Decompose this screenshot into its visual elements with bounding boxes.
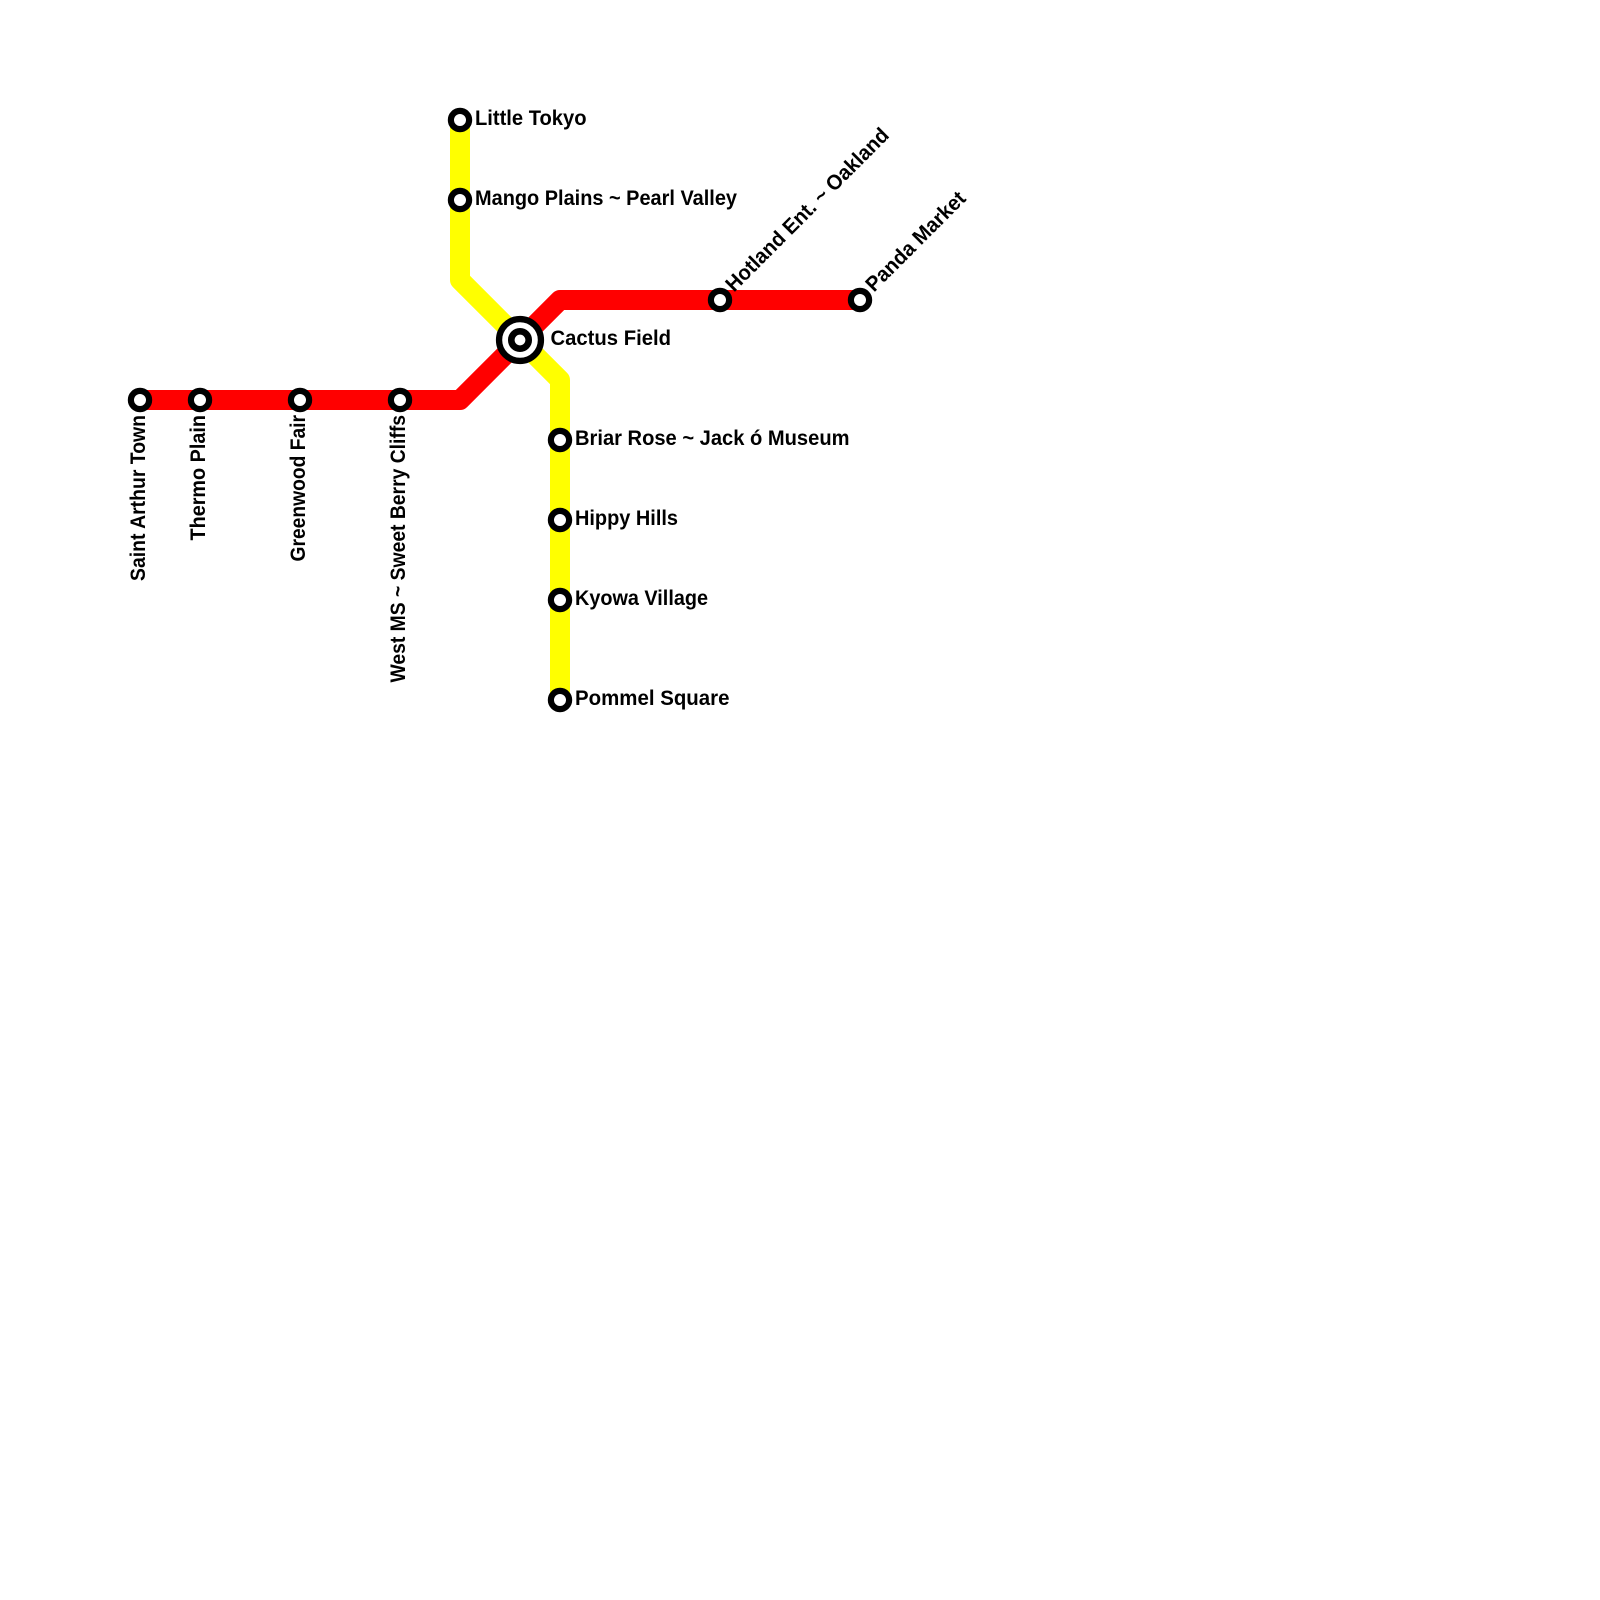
station Kyowa Village: [551, 591, 569, 609]
station Greenwood Fair: [291, 391, 309, 409]
station Panda Market: [851, 291, 869, 309]
svg-text:Kyowa Village: Kyowa Village: [575, 587, 708, 610]
station Briar Rose ~ Jack ó Museum: [551, 431, 569, 449]
station Pommel Square: [551, 691, 569, 709]
svg-text:West MS ~ Sweet Berry Cliffs: West MS ~ Sweet Berry Cliffs: [387, 415, 410, 683]
svg-text:Mango Plains ~ Pearl Valley: Mango Plains ~ Pearl Valley: [475, 187, 737, 210]
station Mango Plains ~ Pearl Valley: [451, 191, 469, 209]
svg-text:Thermo Plain: Thermo Plain: [187, 415, 210, 541]
station Thermo Plain: [191, 391, 209, 409]
svg-text:Little Tokyo: Little Tokyo: [475, 107, 587, 130]
yellow line: [460, 120, 560, 700]
svg-text:Cactus Field: Cactus Field: [551, 327, 672, 350]
station Hotland Ent. ~ Oakland: [711, 291, 729, 309]
svg-text:Briar Rose ~ Jack ó Museum: Briar Rose ~ Jack ó Museum: [575, 427, 850, 450]
svg-text:Hippy Hills: Hippy Hills: [575, 507, 678, 530]
svg-text:Saint Arthur Town: Saint Arthur Town: [127, 415, 150, 581]
station Hippy Hills: [551, 511, 569, 529]
station Saint Arthur Town: [131, 391, 149, 409]
station West MS ~ Sweet Berry Cliffs: [391, 391, 409, 409]
station Little Tokyo: [451, 111, 469, 129]
interchange Cactus Field: [499, 319, 541, 361]
svg-text:Greenwood Fair: Greenwood Fair: [287, 415, 310, 562]
red line: [140, 300, 860, 400]
svg-text:Pommel Square: Pommel Square: [575, 687, 730, 710]
